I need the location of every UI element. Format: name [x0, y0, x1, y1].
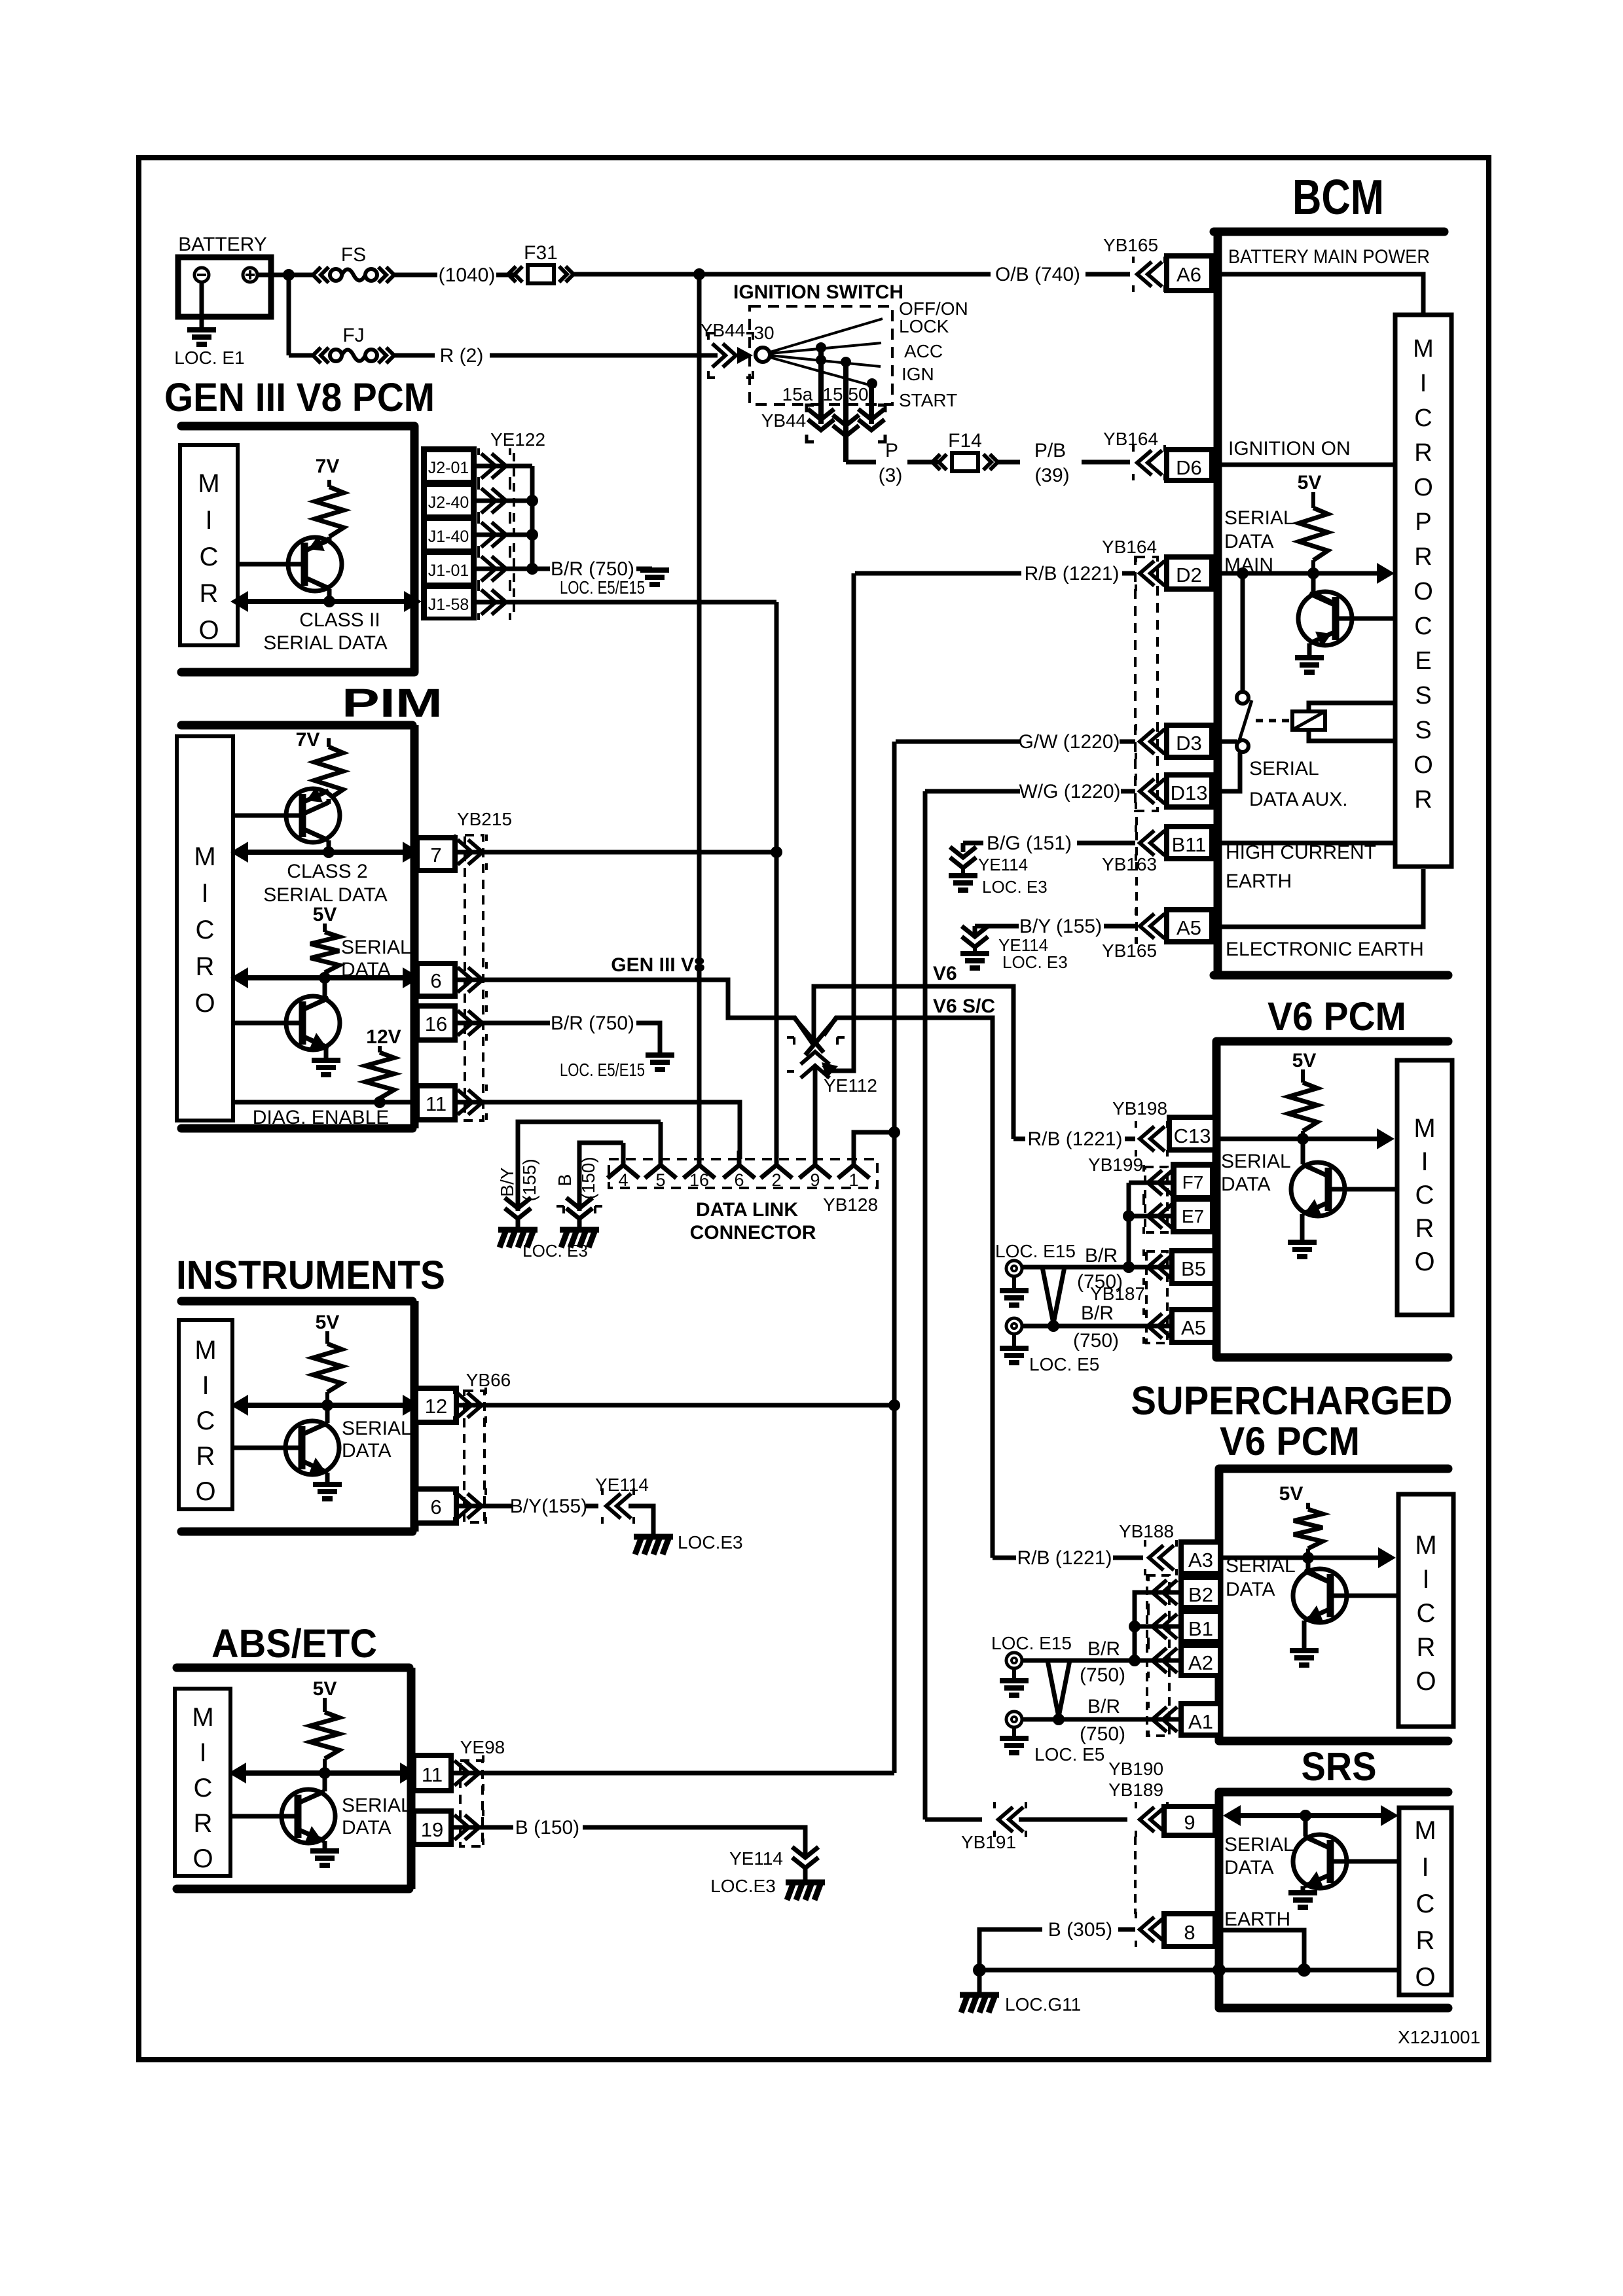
wire F7 to bus [1129, 1181, 1171, 1185]
DLC pin 1 [838, 1151, 869, 1178]
ground BCM transistor emitter [1295, 658, 1324, 672]
INSTRUMENTS box outline [181, 1297, 412, 1306]
svg-text:16: 16 [689, 1170, 709, 1190]
wire B150 to claw ground [583, 1827, 805, 1856]
wire 15 drop [843, 362, 848, 462]
svg-text:5V: 5V [316, 1312, 340, 1333]
svg-text:DATA: DATA [1221, 1174, 1271, 1195]
svg-text:IGNITION SWITCH: IGNITION SWITCH [733, 281, 903, 303]
fuse FJ [313, 348, 329, 363]
wire net B/R (750) to A5 V6 [1022, 1324, 1171, 1329]
svg-text:50: 50 [848, 384, 868, 404]
svg-text:I: I [1422, 1565, 1429, 1594]
splice bus F7/E7/B5 [1127, 1183, 1131, 1267]
GEN III pin block J2/J1 [421, 446, 477, 620]
svg-text:LOC. E3: LOC. E3 [522, 1241, 588, 1261]
pin A5 BCM [1167, 910, 1212, 942]
ground DLC pin5 LOC. E3 claw [516, 1219, 520, 1228]
svg-text:DATA: DATA [1224, 1857, 1274, 1878]
svg-text:R: R [196, 1442, 215, 1471]
wire G/W (1220) trunk from D3 [892, 742, 897, 1773]
svg-text:SERIAL: SERIAL [341, 937, 411, 958]
svg-text:D3: D3 [1176, 732, 1202, 755]
resistor BCM serial data pull-up [1311, 492, 1315, 508]
connector chevrons B2 B1 A2 A1 [1152, 1580, 1177, 1605]
svg-text:M: M [1414, 1816, 1436, 1845]
resistor PIM serial data pull-up [323, 924, 327, 932]
wire V6 S/C serial from splice to supercharged PCM A3 [824, 1018, 993, 1558]
wire V6 serial from splice to V6 PCM C13 [814, 986, 1013, 1139]
wire branch to DLC pin 1 [854, 1132, 894, 1159]
svg-text:LOC. E15: LOC. E15 [995, 1241, 1076, 1261]
svg-text:M: M [1413, 335, 1434, 363]
svg-text:30: 30 [754, 323, 774, 343]
svg-text:(3): (3) [879, 465, 903, 486]
junction A2 bus [1129, 1655, 1140, 1666]
svg-text:M: M [194, 842, 215, 871]
transistor ABS serial driver Q6 [282, 1789, 335, 1843]
ground eyelet LOC E5 [1012, 1334, 1016, 1347]
pin D3 [1167, 725, 1212, 757]
svg-text:S: S [1415, 682, 1431, 709]
pin B5 [1172, 1251, 1215, 1283]
svg-text:M: M [198, 469, 219, 498]
svg-text:LOCK: LOCK [899, 316, 949, 336]
transistor SC serial driver Q8 [1293, 1569, 1347, 1623]
wire J2-40 to splice bus [477, 499, 532, 503]
svg-text:LOC. E5/E15: LOC. E5/E15 [560, 577, 645, 598]
svg-text:BCM: BCM [1292, 170, 1384, 224]
svg-text:C: C [194, 1774, 213, 1803]
wire DLC pin4 net B (150) to ground [579, 1143, 623, 1211]
svg-text:C: C [1414, 613, 1432, 640]
junction B5 bus [1123, 1261, 1135, 1273]
wire F31 to BCM A6 / net O/B (740) [574, 272, 991, 277]
eyelet terminal B5 ground [1006, 1261, 1022, 1276]
ABS micro U5 box [175, 1689, 230, 1876]
svg-text:SERIAL: SERIAL [1249, 758, 1319, 780]
svg-text:DATA: DATA [342, 1440, 392, 1462]
wire battery trunk to DLC pin 16 [697, 274, 702, 1159]
junction diag enable [374, 1096, 386, 1108]
svg-text:B11: B11 [1172, 833, 1207, 856]
wire relay coil to microprocessor [1309, 703, 1395, 711]
wire W/G (1220) trunk from D13 to SRS [923, 791, 928, 1820]
svg-text:O: O [198, 616, 219, 645]
svg-text:DIAG. ENABLE: DIAG. ENABLE [253, 1107, 389, 1128]
junction splice J1-40 [526, 529, 538, 541]
svg-text:5V: 5V [1292, 1050, 1317, 1071]
svg-text:YB215: YB215 [457, 809, 512, 829]
wire pin12 serial data to G/W trunk [456, 1403, 894, 1408]
svg-text:15: 15 [822, 384, 843, 404]
GEN III V8 PCM box outline [181, 422, 414, 431]
SRS micro U8 box [1399, 1808, 1451, 1995]
svg-text:C: C [1417, 1599, 1436, 1628]
svg-text:B/Y(155): B/Y(155) [510, 1496, 587, 1517]
svg-text:YB164: YB164 [1103, 429, 1158, 449]
svg-text:YE98: YE98 [460, 1737, 505, 1757]
junction CLASS 2 [323, 846, 335, 858]
svg-text:START: START [899, 390, 957, 410]
svg-text:CLASS II: CLASS II [299, 609, 380, 631]
contact node 50 [867, 378, 877, 389]
svg-text:12V: 12V [366, 1026, 401, 1048]
V6 pin block F7 E7 [1171, 1162, 1215, 1234]
connector YB187 upper chevron at B5 [1148, 1255, 1173, 1280]
svg-text:(150): (150) [578, 1157, 598, 1199]
svg-text:S: S [1415, 717, 1431, 744]
net R/B (1221) into A3 [993, 1556, 1016, 1560]
svg-text:R: R [1417, 1633, 1436, 1662]
wire D2 contact drop [1241, 573, 1245, 692]
svg-text:A3: A3 [1188, 1549, 1213, 1571]
GEN III PCM micro U2 box [180, 445, 238, 645]
svg-text:ELECTRONIC EARTH: ELECTRONIC EARTH [1226, 939, 1424, 960]
svg-text:LOC. E3: LOC. E3 [982, 877, 1048, 897]
svg-text:M: M [1415, 1531, 1436, 1560]
pin A6 [1167, 256, 1212, 291]
junction G/W to DLC pin 1 [888, 1126, 900, 1138]
resistor PIM class2 pull-up [327, 738, 331, 747]
svg-text:J2-01: J2-01 [428, 459, 469, 477]
svg-text:SERIAL DATA: SERIAL DATA [263, 884, 388, 906]
svg-text:5V: 5V [1298, 472, 1322, 493]
svg-text:I: I [201, 879, 208, 908]
svg-text:SERIAL: SERIAL [1224, 1834, 1294, 1856]
svg-text:ABS/ETC: ABS/ETC [211, 1621, 377, 1666]
net B (150) from pin19 [451, 1825, 513, 1830]
pin 11 ABS [414, 1755, 451, 1791]
svg-text:7: 7 [430, 844, 441, 867]
pin D2 [1167, 557, 1212, 589]
svg-text:O: O [1413, 751, 1433, 779]
ground claw LOC.G11 [977, 1970, 982, 1992]
svg-text:FJ: FJ [342, 325, 364, 346]
contact node 15 [841, 357, 851, 367]
svg-text:O: O [1413, 474, 1433, 501]
SC V6 PCM box outline [1215, 1469, 1224, 1741]
svg-text:B/R: B/R [1087, 1638, 1120, 1660]
svg-text:P/B: P/B [1034, 440, 1066, 461]
connector chevron at D3 [1140, 729, 1165, 754]
switch throw line START [770, 357, 876, 387]
svg-text:I: I [202, 1371, 209, 1400]
svg-text:C13: C13 [1174, 1124, 1211, 1147]
svg-text:5: 5 [655, 1170, 665, 1190]
svg-text:I: I [199, 1738, 206, 1767]
svg-text:R: R [1416, 1926, 1435, 1955]
svg-text:PIM: PIM [342, 681, 443, 725]
connector YB191 [998, 1807, 1023, 1832]
svg-text:YB66: YB66 [466, 1370, 511, 1390]
svg-text:SRS: SRS [1302, 1744, 1377, 1789]
wire R/B (1221) trunk from D2 to splice YE112 [824, 573, 854, 1071]
junction SC serial [1302, 1552, 1314, 1564]
svg-text:C: C [200, 543, 219, 571]
pin 7 PIM [417, 838, 455, 870]
connector chevron J2-01 [481, 454, 506, 478]
ground B/Y LOC. E3 [973, 947, 977, 952]
svg-text:YB163: YB163 [1102, 854, 1157, 874]
svg-text:O: O [195, 1477, 215, 1506]
BCM microprocessor U1 box [1395, 315, 1451, 867]
svg-text:B: B [555, 1174, 575, 1187]
svg-text:2: 2 [771, 1170, 781, 1190]
pin D6 [1167, 450, 1212, 480]
transistor V6 serial driver Q7 [1291, 1162, 1345, 1216]
svg-text:SERIAL: SERIAL [1224, 507, 1294, 529]
svg-text:O/B (740): O/B (740) [995, 264, 1080, 285]
svg-text:O: O [1414, 1247, 1434, 1276]
svg-text:F7: F7 [1182, 1172, 1204, 1193]
wire battery negative to earth [200, 282, 204, 327]
svg-text:LOC.G11: LOC.G11 [1005, 1994, 1081, 2015]
svg-text:D6: D6 [1176, 456, 1202, 479]
wire C13 serial data to micro [1215, 1137, 1379, 1141]
svg-text:B1: B1 [1188, 1617, 1213, 1640]
svg-text:G/W (1220): G/W (1220) [1018, 731, 1120, 753]
svg-text:11: 11 [426, 1092, 447, 1115]
wire net B/R (750) to A1 [1022, 1717, 1181, 1722]
svg-text:V6: V6 [933, 963, 957, 984]
wire to claw ground LOC.E3 [629, 1506, 653, 1534]
wire J1-58 trunk to DLC pin 2 [775, 602, 779, 1159]
ground DLC pin4 LOC. E3 claw [577, 1219, 582, 1228]
wire 15a drop [818, 348, 824, 424]
svg-text:C: C [1416, 1890, 1435, 1918]
svg-text:C: C [196, 1407, 215, 1435]
svg-text:I: I [1420, 370, 1427, 397]
ground V6 transistor emitter [1288, 1242, 1317, 1257]
pin 6 PIM [417, 963, 455, 996]
pin B11 [1167, 827, 1212, 859]
pin C13 [1169, 1117, 1215, 1150]
svg-text:CLASS 2: CLASS 2 [287, 861, 367, 882]
connector YB163 at B11 [1135, 817, 1138, 944]
V6 PCM micro U6 box [1397, 1060, 1452, 1315]
svg-text:YE112: YE112 [824, 1075, 877, 1096]
wire junction branch to FJ [289, 353, 314, 358]
svg-text:B/Y: B/Y [497, 1167, 517, 1196]
ground INSTRUMENTS transistor emitter [313, 1484, 342, 1499]
svg-text:R: R [196, 952, 215, 981]
junction A1 V dip [1053, 1713, 1065, 1725]
svg-text:I: I [205, 506, 212, 535]
fuse F31 [508, 266, 522, 282]
ground SC transistor emitter [1290, 1651, 1319, 1665]
pin 6 INSTRUMENTS [416, 1489, 456, 1523]
svg-text:B/R: B/R [1081, 1302, 1114, 1324]
DLC pin 6 [723, 1151, 755, 1178]
DLC pin 4 [608, 1143, 639, 1178]
svg-text:I: I [1421, 1853, 1429, 1882]
junction ABS serial [319, 1767, 331, 1779]
connector YB165 at A5 [1140, 914, 1165, 939]
dashed boundary SRS connectors [1134, 1837, 1137, 1914]
switch throw line OFF/ON-LOCK [770, 319, 883, 352]
ground ABS B150 claw LOC.E3 [803, 1868, 808, 1880]
svg-text:LOC.E3: LOC.E3 [710, 1876, 776, 1896]
wire ABS serial data bus with arrows [243, 1770, 403, 1776]
transistor PIM diag driver Q4 [286, 996, 340, 1050]
svg-text:LOC. E5/E15: LOC. E5/E15 [560, 1060, 645, 1080]
svg-text:(750): (750) [1080, 1723, 1125, 1745]
svg-text:16: 16 [425, 1013, 447, 1035]
splice YE114 on pin5 wire [505, 1198, 531, 1219]
pin 19 ABS [414, 1811, 451, 1844]
svg-text:YB191: YB191 [961, 1832, 1016, 1852]
connector chevron at D2 [1140, 561, 1165, 586]
svg-text:DATA LINK: DATA LINK [696, 1199, 798, 1221]
transistor SRS serial driver Q9 [1293, 1835, 1347, 1888]
switch throw line IGN [770, 355, 881, 367]
svg-text:YB187: YB187 [1090, 1283, 1145, 1304]
wire A3 serial to micro [1220, 1556, 1380, 1560]
svg-text:C: C [1415, 1181, 1434, 1210]
pin D13 [1167, 775, 1212, 807]
svg-text:(155): (155) [519, 1158, 539, 1201]
wire CLASS 2 serial data bus with arrows [245, 850, 406, 855]
DLC pin 2 [761, 1151, 792, 1178]
svg-text:15a: 15a [782, 384, 813, 404]
svg-text:X12J1001: X12J1001 [1398, 2027, 1480, 2047]
svg-text:DATA: DATA [1224, 531, 1274, 552]
svg-text:LOC. E5: LOC. E5 [1034, 1744, 1104, 1765]
INSTRUMENTS micro U4 box [179, 1320, 232, 1509]
svg-text:LOC. E3: LOC. E3 [1002, 952, 1068, 972]
junction INSTRUMENTS serial [321, 1399, 333, 1411]
svg-text:C: C [196, 916, 215, 944]
battery B1 [178, 257, 271, 317]
svg-text:YB189: YB189 [1108, 1780, 1163, 1800]
ground battery LOC. E1 [187, 330, 216, 344]
resistor GEN III pull-up [327, 480, 331, 487]
svg-text:D2: D2 [1176, 564, 1202, 586]
svg-text:R/B (1221): R/B (1221) [1024, 563, 1119, 584]
svg-text:E: E [1415, 647, 1431, 675]
wire J1-58 class II to DLC pin 2 [477, 600, 776, 605]
svg-text:8: 8 [1184, 1921, 1195, 1944]
svg-text:J1-58: J1-58 [428, 596, 469, 614]
svg-text:1: 1 [848, 1170, 858, 1190]
splice YE114 on B/Y [962, 926, 988, 947]
resistor SC pull-up [1306, 1503, 1310, 1509]
junction SRS serial [1300, 1810, 1311, 1821]
svg-text:B/G (151): B/G (151) [987, 833, 1072, 854]
svg-text:YB190: YB190 [1108, 1759, 1163, 1779]
net R/B (1221) from D2 [855, 571, 1021, 576]
transistor GEN III serial driver Q2 [288, 537, 342, 591]
wire B305 to ground LOC.G11 [979, 1929, 989, 1970]
svg-text:6: 6 [734, 1170, 744, 1190]
connector chevron at pin 8 [1140, 1917, 1165, 1942]
wire B11 to microprocessor / HIGH CURRENT EARTH [1212, 841, 1395, 846]
wire SRS serial data bus with arrows [1231, 1813, 1383, 1818]
wire J2-01 to splice bus [477, 464, 532, 469]
wire pin7 class2 to DLC trunk [455, 850, 776, 855]
V dip wire A2 to A1 net [1048, 1660, 1070, 1717]
ground INSTRUMENTS B/Y claw [634, 1534, 673, 1540]
battery positive terminal [243, 268, 257, 282]
eyelet terminal A5 ground [1006, 1318, 1022, 1334]
transistor PIM class2 driver Q3 [286, 789, 340, 842]
junction splice J1-01 [526, 563, 538, 575]
wire earth return to micro [979, 1968, 1399, 1973]
svg-text:R: R [1414, 439, 1432, 467]
svg-text:(750): (750) [1073, 1330, 1119, 1352]
svg-text:R: R [1414, 543, 1432, 571]
wire D13 up to contact [1212, 753, 1240, 791]
pin 16 PIM [417, 1006, 455, 1040]
pin A3 [1181, 1542, 1220, 1573]
wire J1-40 to splice bus [477, 533, 532, 537]
PIM micro U3 box [177, 736, 233, 1121]
pin A1 [1181, 1704, 1220, 1735]
splice YE114 on pin4 wire [566, 1198, 593, 1219]
svg-text:SERIAL: SERIAL [1221, 1151, 1291, 1172]
wire net B/R (750) to A2 [1022, 1659, 1181, 1663]
net B/Y(155) from pin6 [456, 1504, 513, 1509]
svg-text:DATA AUX.: DATA AUX. [1249, 789, 1348, 810]
junction LOC G11 [973, 1964, 986, 1977]
net B/G (151) to B11 [961, 843, 966, 852]
eyelet terminal A1 ground [1006, 1712, 1022, 1727]
svg-text:SERIAL: SERIAL [1226, 1555, 1296, 1577]
ground eyelet LOC E15 SC [1012, 1668, 1016, 1679]
ground ABS transistor emitter [310, 1851, 339, 1865]
svg-text:J1-01: J1-01 [428, 562, 469, 580]
svg-text:B/R: B/R [1087, 1696, 1120, 1717]
svg-text:B (305): B (305) [1048, 1919, 1112, 1941]
svg-text:B (150): B (150) [515, 1817, 579, 1839]
svg-text:IGNITION ON: IGNITION ON [1228, 438, 1351, 459]
svg-text:A1: A1 [1188, 1710, 1213, 1733]
svg-text:YB164: YB164 [1102, 537, 1157, 557]
junction B1 bus [1129, 1621, 1140, 1632]
pin A2 [1181, 1645, 1220, 1676]
ground B/G LOC. E3 [961, 868, 965, 874]
svg-text:YB198: YB198 [1112, 1098, 1167, 1119]
SC V6 PCM micro U7 box [1398, 1494, 1453, 1727]
svg-text:6: 6 [430, 969, 441, 992]
svg-text:LOC. E5: LOC. E5 [1029, 1354, 1099, 1374]
junction serial data main [1237, 567, 1249, 579]
svg-text:LOC. E1: LOC. E1 [174, 348, 244, 368]
junction CLASS II [323, 596, 335, 607]
wire pin8 earth inside SRS [1215, 1930, 1304, 1970]
data link connector dashed outline [609, 1159, 877, 1188]
pin B1 [1181, 1611, 1220, 1641]
relay K1 coil [1292, 711, 1325, 730]
junction SRS box edge [1213, 1964, 1226, 1977]
svg-text:GEN III V8 PCM: GEN III V8 PCM [164, 375, 435, 420]
svg-text:YE122: YE122 [490, 429, 545, 450]
svg-text:R: R [200, 579, 219, 608]
resistor ABS pull-up [323, 1698, 327, 1712]
svg-text:R: R [1414, 786, 1432, 814]
svg-text:INSTRUMENTS: INSTRUMENTS [176, 1253, 445, 1297]
svg-text:LOC. E15: LOC. E15 [991, 1633, 1072, 1653]
PIM box outline [181, 721, 412, 730]
svg-text:DATA: DATA [342, 1817, 392, 1839]
eyelet terminal A2 ground [1006, 1653, 1022, 1668]
switch contact lower [1237, 740, 1249, 752]
svg-text:O: O [1415, 1963, 1435, 1992]
net B/R (750) from pin16 to ground [455, 1021, 550, 1026]
wire D6 to microprocessor [1212, 463, 1395, 467]
svg-text:(750): (750) [1080, 1664, 1125, 1686]
